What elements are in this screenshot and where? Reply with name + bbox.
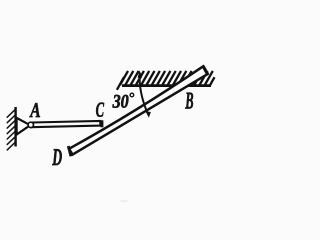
svg-text:30: 30 <box>112 92 129 113</box>
svg-text:D: D <box>52 145 62 171</box>
svg-text:B: B <box>185 89 194 115</box>
svg-text:A: A <box>29 98 41 122</box>
svg-text:C: C <box>96 98 105 122</box>
